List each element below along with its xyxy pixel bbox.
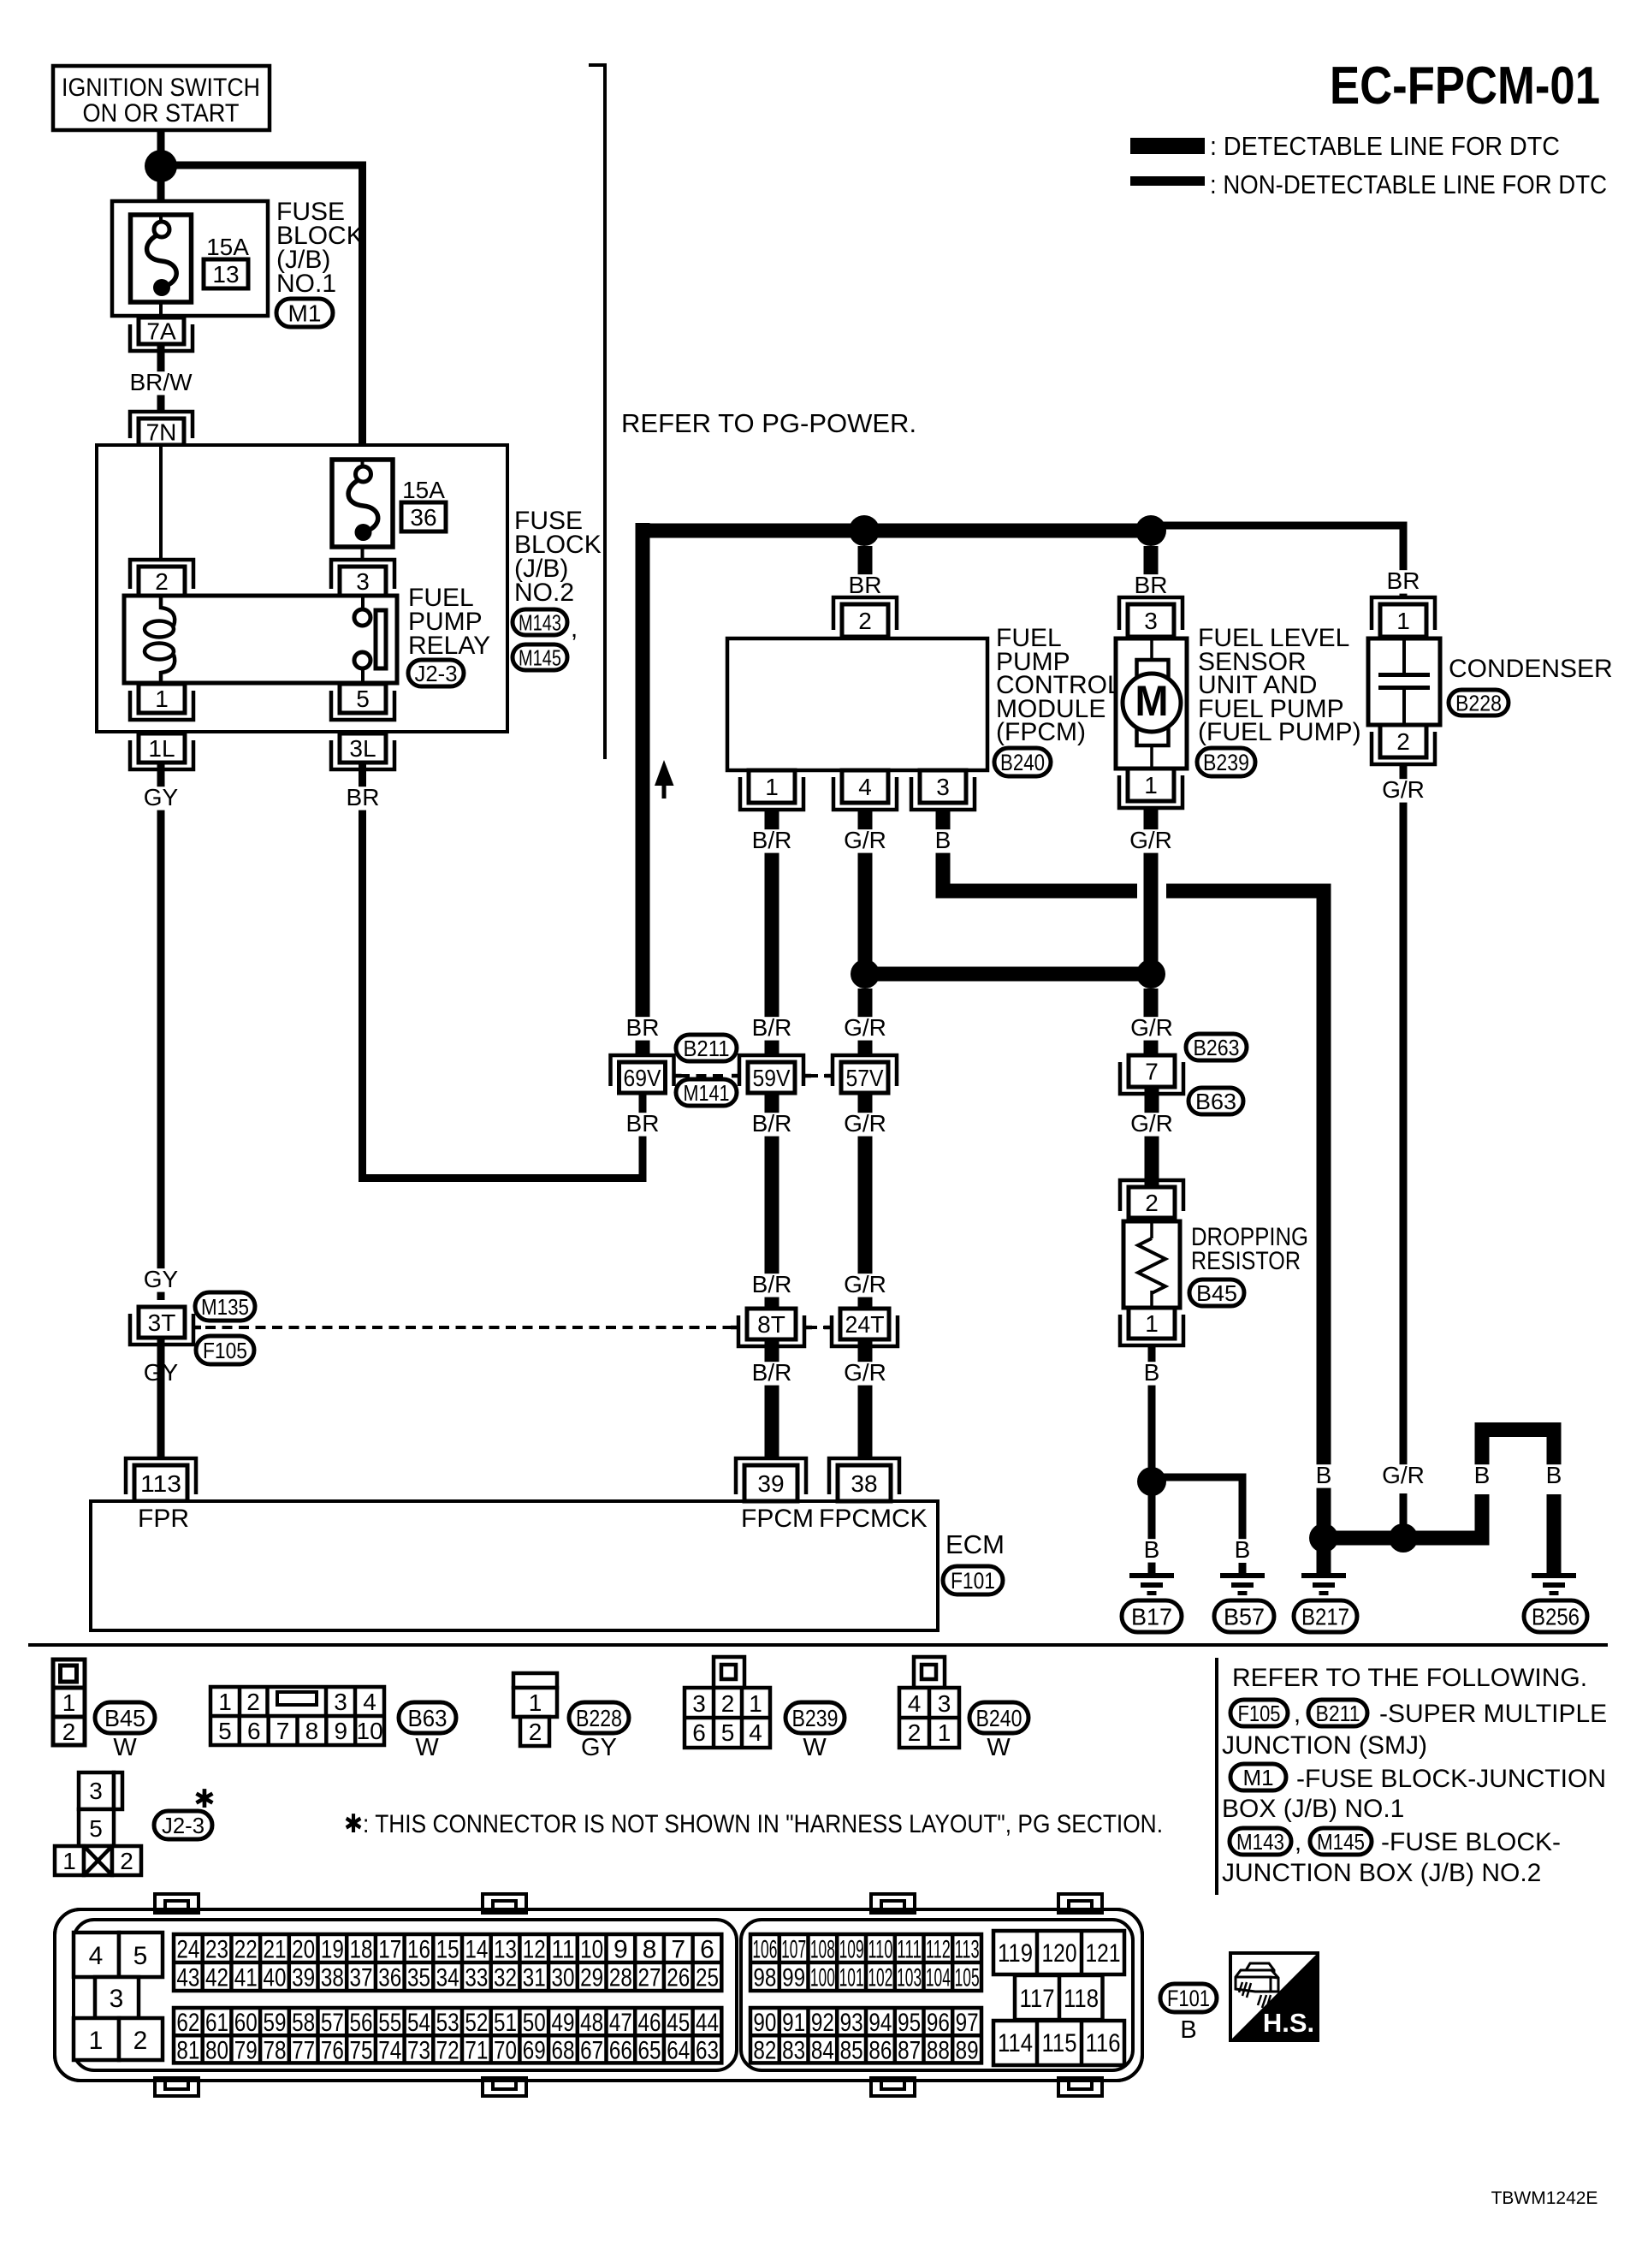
svg-text:55: 55 — [378, 2009, 401, 2037]
fuse block J/B no.1 box — [112, 201, 268, 316]
svg-text:22: 22 — [234, 1936, 258, 1964]
connector B240 oval — [994, 748, 1051, 776]
svg-text:66: 66 — [609, 2036, 632, 2064]
label B on U right leg — [1541, 1464, 1566, 1487]
svg-text:G/R: G/R — [1382, 776, 1425, 803]
svg-text:96: 96 — [927, 2009, 950, 2037]
svg-text:-FUSE BLOCK-: -FUSE BLOCK- — [1381, 1828, 1561, 1856]
relay connector 2 — [130, 560, 193, 589]
svg-text:4: 4 — [858, 774, 872, 800]
svg-text:REFER TO THE FOLLOWING.: REFER TO THE FOLLOWING. — [1232, 1664, 1587, 1692]
svg-text:REFER TO PG-POWER.: REFER TO PG-POWER. — [621, 408, 916, 438]
svg-text:9: 9 — [613, 1936, 628, 1964]
svg-text:61: 61 — [205, 2009, 228, 2037]
connector M141 oval — [676, 1079, 737, 1106]
connector view B228 — [513, 1673, 557, 1688]
svg-text:5: 5 — [356, 686, 370, 712]
label G/R below FPCM 4 — [838, 829, 892, 852]
svg-text:3: 3 — [89, 1778, 103, 1804]
wire fuse 13 to 7A — [159, 302, 163, 318]
svg-text:J2-3: J2-3 — [162, 1813, 204, 1838]
svg-text:B211: B211 — [684, 1036, 730, 1061]
svg-text:114: 114 — [998, 2029, 1033, 2057]
label B below resistor — [1139, 1362, 1164, 1385]
connector view B240 — [914, 1657, 945, 1688]
svg-text:FPCM: FPCM — [741, 1505, 814, 1533]
svg-text:2: 2 — [133, 2027, 148, 2055]
label BR/W — [126, 371, 195, 395]
wire B resistor to node — [1148, 1345, 1156, 1481]
connector B211 oval — [676, 1035, 737, 1061]
svg-text:B: B — [935, 827, 951, 853]
label BR above condenser — [1384, 570, 1424, 593]
svg-text:49: 49 — [551, 2009, 574, 2037]
svg-text:38: 38 — [851, 1470, 877, 1497]
fuel pump motor M — [1150, 638, 1153, 663]
svg-text:M143: M143 — [519, 609, 561, 635]
connector B239 oval — [1197, 748, 1255, 776]
svg-text:M143: M143 — [1236, 1829, 1284, 1855]
dashed line 69V to 59V — [679, 1074, 727, 1078]
svg-text:TBWM1242E: TBWM1242E — [1491, 2188, 1598, 2208]
svg-text:-FUSE BLOCK-JUNCTION: -FUSE BLOCK-JUNCTION — [1296, 1765, 1606, 1793]
svg-text:59V: 59V — [753, 1065, 791, 1091]
relay connector 5 — [331, 691, 394, 720]
svg-text:B256: B256 — [1532, 1604, 1580, 1630]
node B217 — [1309, 1523, 1338, 1553]
svg-text:2: 2 — [246, 1689, 260, 1715]
svg-text:B: B — [1144, 1536, 1160, 1563]
svg-text:BR/W: BR/W — [129, 369, 193, 395]
connector 38 (ECM) — [829, 1458, 899, 1494]
wire BR dot to pump pin 3 — [1144, 546, 1159, 597]
svg-text:B240: B240 — [976, 1705, 1022, 1731]
svg-text:B17: B17 — [1131, 1604, 1172, 1630]
label BR below 3L — [343, 787, 383, 810]
svg-text:BR: BR — [626, 1014, 660, 1041]
ECM pin grid upper left (24-6 / 43-25) — [174, 1934, 721, 1991]
label B above B17 ground — [1139, 1539, 1164, 1562]
ECM pins 119 120 121 — [993, 1931, 1124, 1974]
svg-text:33: 33 — [465, 1964, 488, 1992]
svg-text:M135: M135 — [201, 1294, 249, 1320]
label GY below 1L — [141, 787, 181, 810]
label BR above FPCM 2 — [845, 574, 886, 597]
connector B228 oval — [1449, 690, 1509, 715]
ECM pins 114 115 116 — [993, 2021, 1124, 2065]
svg-text:2: 2 — [529, 1719, 542, 1745]
arrow up (power feed) — [655, 760, 674, 786]
svg-text:,: , — [571, 614, 578, 643]
svg-text:W: W — [113, 1734, 137, 1761]
svg-text:F101: F101 — [1167, 1986, 1210, 2011]
connector 7N — [130, 412, 193, 438]
svg-text:3: 3 — [692, 1690, 706, 1717]
svg-text:29: 29 — [580, 1964, 603, 1992]
svg-text:NO.1: NO.1 — [276, 270, 336, 298]
svg-text:63: 63 — [696, 2036, 719, 2064]
wire B217 node to ground — [1317, 1545, 1331, 1573]
connector B63 oval — [1188, 1088, 1243, 1114]
svg-text:2: 2 — [1396, 728, 1410, 755]
wire G/R condenser down — [1400, 764, 1408, 1465]
svg-text:8T: 8T — [757, 1311, 785, 1338]
svg-text:B63: B63 — [1195, 1089, 1236, 1114]
FPCM connector 3 — [911, 777, 975, 810]
svg-text:118: 118 — [1064, 1985, 1099, 2013]
label BR above pump 3 — [1131, 574, 1171, 597]
svg-text:1: 1 — [1396, 608, 1410, 634]
svg-text:B: B — [1316, 1462, 1332, 1488]
svg-text:92: 92 — [811, 2009, 834, 2037]
ignition switch box — [53, 66, 270, 130]
svg-text:9: 9 — [334, 1718, 347, 1744]
svg-text:86: 86 — [868, 2036, 892, 2064]
svg-text:113: 113 — [140, 1470, 181, 1497]
label G/R below pump 1 (over wire) — [1123, 829, 1178, 852]
label B above B57 ground — [1230, 1539, 1254, 1562]
svg-text:38: 38 — [321, 1964, 344, 1992]
svg-text:3: 3 — [110, 1985, 124, 2013]
svg-text:90: 90 — [753, 2009, 776, 2037]
svg-text:2: 2 — [62, 1719, 76, 1745]
label G/R above 57V — [838, 1017, 892, 1040]
svg-text:94: 94 — [868, 2009, 892, 2037]
svg-text:75: 75 — [350, 2036, 373, 2064]
svg-text:67: 67 — [580, 2036, 603, 2064]
svg-text:G/R: G/R — [844, 827, 886, 853]
label B above B217 node — [1311, 1464, 1336, 1487]
svg-text:3: 3 — [936, 774, 950, 800]
wire node to B57 elbow — [1164, 1474, 1247, 1481]
svg-text:97: 97 — [956, 2009, 979, 2037]
svg-text:BR: BR — [626, 1110, 660, 1137]
dashed line 59V to 57V — [809, 1074, 828, 1078]
svg-text:B263: B263 — [1194, 1035, 1240, 1060]
svg-text:B45: B45 — [104, 1705, 145, 1731]
svg-text:FPR: FPR — [138, 1505, 189, 1533]
svg-text:44: 44 — [696, 2009, 719, 2037]
svg-text:2: 2 — [858, 608, 872, 634]
wire G/R node to connector 7 — [1144, 989, 1159, 1055]
label B/R below FPCM 1 — [744, 829, 799, 852]
svg-text:CONDENSER: CONDENSER — [1449, 655, 1613, 683]
oval B63 (view) — [399, 1702, 456, 1733]
dashed line 3T to 8T — [205, 1326, 740, 1329]
fuse 15A no.36 — [332, 460, 393, 547]
svg-text:2: 2 — [155, 568, 169, 595]
wire BR to condenser (non-detectable) — [1159, 522, 1408, 530]
svg-text:100: 100 — [810, 1964, 835, 1992]
wire BR dot to FPCM pin 2 — [858, 546, 873, 597]
svg-text:5: 5 — [89, 1815, 103, 1842]
svg-text:(FPCM): (FPCM) — [996, 718, 1086, 746]
svg-text:106: 106 — [752, 1936, 777, 1964]
fuel pump connector 1 — [1119, 775, 1183, 808]
svg-text:21: 21 — [263, 1936, 286, 1964]
svg-text:15A: 15A — [206, 234, 249, 260]
svg-text:G/R: G/R — [844, 1014, 886, 1041]
ground B217 — [1301, 1573, 1346, 1578]
condenser connector 1 — [1372, 597, 1435, 630]
svg-text:98: 98 — [753, 1964, 776, 1992]
ground oval B57 — [1214, 1600, 1274, 1632]
svg-text:47: 47 — [609, 2009, 632, 2037]
svg-text:109: 109 — [839, 1936, 864, 1964]
svg-text:15: 15 — [436, 1936, 459, 1964]
wire 3T to ECM 113 — [157, 1338, 165, 1459]
connector M143 oval — [513, 609, 567, 635]
svg-text:70: 70 — [494, 2036, 517, 2064]
svg-text:30: 30 — [551, 1964, 574, 1992]
svg-text:111: 111 — [897, 1936, 922, 1964]
svg-text:41: 41 — [234, 1964, 258, 1992]
connector 39 (ECM) — [736, 1458, 806, 1494]
svg-text:W: W — [415, 1734, 439, 1761]
dropping resistor connector 2 — [1120, 1180, 1183, 1211]
wire G/R connector 7 to resistor — [1145, 1087, 1159, 1187]
svg-text:G/R: G/R — [844, 1110, 886, 1137]
svg-text:J2-3: J2-3 — [415, 661, 458, 686]
oval B239 (view) — [785, 1702, 845, 1733]
ground B256 — [1532, 1573, 1576, 1578]
svg-text:57V: 57V — [846, 1065, 884, 1091]
svg-text:10: 10 — [580, 1936, 603, 1964]
svg-text:31: 31 — [523, 1964, 546, 1992]
connector 57V — [833, 1055, 897, 1086]
svg-text:B/R: B/R — [752, 827, 792, 853]
ECM connector housing inner left — [74, 1920, 737, 2070]
node BR at fuel pump branch — [1135, 515, 1166, 546]
node BR at FPCM branch — [849, 515, 880, 546]
svg-text:3T: 3T — [148, 1309, 176, 1336]
label B/R below 8T — [744, 1362, 799, 1385]
node G/R right — [1136, 959, 1165, 989]
svg-text:62: 62 — [176, 2009, 199, 2037]
dropping resistor connector 1 — [1120, 1315, 1183, 1345]
svg-text:72: 72 — [436, 2036, 459, 2064]
svg-text:✱: ✱ — [193, 1785, 215, 1814]
svg-text:36: 36 — [410, 504, 436, 531]
ground B17 — [1129, 1573, 1174, 1578]
oval M1 (refer) — [1230, 1764, 1286, 1790]
svg-text:JUNCTION BOX (J/B) NO.2: JUNCTION BOX (J/B) NO.2 — [1222, 1859, 1541, 1887]
svg-text:BR: BR — [1135, 572, 1168, 598]
svg-text:(FUEL PUMP): (FUEL PUMP) — [1198, 718, 1361, 746]
connector J2-3 oval — [408, 660, 464, 686]
svg-text:GY: GY — [581, 1734, 617, 1761]
box fuse number 13 — [204, 259, 248, 288]
svg-text:1: 1 — [1145, 1310, 1159, 1337]
svg-text:89: 89 — [956, 2036, 979, 2064]
label G/R above node — [1376, 1464, 1431, 1487]
fuel level sensor unit and fuel pump box — [1116, 638, 1187, 769]
relay connector 1 — [130, 691, 193, 720]
legend non-detectable line sample — [1130, 176, 1205, 186]
svg-text:-SUPER MULTIPLE: -SUPER MULTIPLE — [1379, 1700, 1607, 1728]
svg-text:NO.2: NO.2 — [514, 579, 574, 607]
svg-text:3: 3 — [938, 1690, 951, 1717]
svg-text:GY: GY — [144, 1266, 179, 1292]
svg-text:IGNITION SWITCH: IGNITION SWITCH — [62, 74, 260, 102]
svg-text:B/R: B/R — [752, 1014, 792, 1041]
ground oval B217 — [1294, 1600, 1357, 1632]
condenser box — [1368, 638, 1440, 725]
connector 59V — [739, 1055, 803, 1086]
ground oval B17 — [1122, 1600, 1182, 1632]
svg-text:4: 4 — [363, 1689, 376, 1715]
wire 7A to 7N — [157, 344, 165, 413]
wire G/R pump to junction node — [1144, 806, 1159, 974]
svg-text:5: 5 — [133, 1942, 148, 1970]
svg-text:GY: GY — [144, 784, 179, 810]
ECM box — [91, 1501, 938, 1630]
connector F101 oval — [943, 1566, 1003, 1594]
svg-text:5: 5 — [218, 1718, 232, 1744]
svg-text:4: 4 — [908, 1690, 922, 1717]
svg-text:5: 5 — [721, 1719, 735, 1746]
svg-text:103: 103 — [897, 1964, 922, 1992]
svg-text:40: 40 — [263, 1964, 286, 1992]
relay coil — [161, 596, 175, 626]
connector 3L — [331, 740, 394, 769]
wire node right to fuse 36 — [176, 162, 366, 169]
svg-text:50: 50 — [523, 2009, 546, 2037]
ECM pin grid lower right (90-97 / 82-89) — [750, 2008, 981, 2063]
node G/R left — [851, 959, 880, 989]
svg-text:85: 85 — [840, 2036, 863, 2064]
wire U-bend (B) — [1475, 1494, 1490, 1546]
svg-text:60: 60 — [234, 2009, 258, 2037]
svg-text:RELAY: RELAY — [408, 632, 490, 660]
svg-text:1: 1 — [1144, 772, 1158, 799]
svg-text:112: 112 — [926, 1936, 951, 1964]
svg-text:1: 1 — [765, 774, 779, 800]
svg-text:8: 8 — [305, 1718, 319, 1744]
connector 24T — [832, 1315, 898, 1346]
condenser capacitor symbol — [1402, 638, 1406, 673]
svg-text:1: 1 — [938, 1719, 951, 1746]
svg-text:69: 69 — [523, 2036, 546, 2064]
svg-text:19: 19 — [321, 1936, 344, 1964]
svg-text:119: 119 — [998, 1939, 1033, 1968]
svg-text:1: 1 — [529, 1689, 542, 1716]
oval F101 (ECM view) — [1160, 1984, 1217, 2012]
svg-text:3: 3 — [1144, 608, 1158, 634]
connector view J2-3 — [79, 1772, 114, 1809]
bracket line REFER TO PG-POWER — [589, 63, 607, 67]
svg-text:W: W — [987, 1734, 1011, 1761]
svg-text:20: 20 — [292, 1936, 315, 1964]
ECM key pins 4 5 3 1 2 — [74, 1933, 119, 1977]
label G/R below 57V (redraw) — [838, 1113, 892, 1136]
svg-text:1: 1 — [62, 1848, 76, 1874]
svg-text:1: 1 — [218, 1689, 232, 1715]
svg-text:80: 80 — [205, 2036, 228, 2064]
ECM pin grid lower left (62-44 / 81-63) — [174, 2008, 721, 2063]
svg-text:42: 42 — [205, 1964, 228, 1992]
connector 8T — [738, 1315, 804, 1346]
svg-text:B228: B228 — [576, 1705, 622, 1731]
svg-text:102: 102 — [868, 1964, 892, 1992]
connector view B45 — [53, 1659, 85, 1745]
oval B228 (view) — [569, 1702, 629, 1733]
svg-text:87: 87 — [898, 2036, 921, 2064]
svg-text:G/R: G/R — [844, 1271, 886, 1297]
svg-text:G/R: G/R — [1382, 1462, 1425, 1488]
svg-text:73: 73 — [407, 2036, 430, 2064]
svg-text:ECM: ECM — [945, 1529, 1005, 1559]
svg-text:108: 108 — [810, 1936, 835, 1964]
wire 7N to relay pin 2 — [159, 445, 163, 561]
label B below FPCM 3 — [930, 829, 955, 852]
wire fuse 36 to relay pin 3 — [361, 547, 365, 561]
svg-text:7: 7 — [1145, 1059, 1159, 1085]
svg-text:15A: 15A — [402, 477, 445, 503]
svg-text:58: 58 — [292, 2009, 315, 2037]
svg-text:34: 34 — [436, 1964, 459, 1992]
node ignition splice — [145, 150, 177, 182]
svg-text:76: 76 — [321, 2036, 344, 2064]
wire ignition to node — [157, 130, 165, 151]
separator line of refer-to box — [1215, 1658, 1218, 1895]
svg-text:1: 1 — [89, 2027, 104, 2055]
connector view B63 — [210, 1687, 384, 1745]
svg-text:G/R: G/R — [1130, 1014, 1173, 1041]
ECM connector housing outer — [55, 1909, 1142, 2081]
oval F105 (refer) — [1230, 1700, 1288, 1726]
connector view B239 — [714, 1657, 744, 1688]
svg-text:35: 35 — [407, 1964, 430, 1992]
svg-text:2: 2 — [721, 1690, 735, 1717]
divider line — [28, 1643, 1608, 1647]
svg-text:52: 52 — [465, 2009, 488, 2037]
svg-text:2: 2 — [1145, 1190, 1159, 1216]
svg-text:BR: BR — [1387, 567, 1420, 594]
connector M145 oval — [513, 644, 567, 670]
svg-text:71: 71 — [465, 2036, 488, 2064]
svg-text:46: 46 — [638, 2009, 661, 2037]
svg-text:32: 32 — [494, 1964, 517, 1992]
box fuse number 36 — [401, 502, 446, 531]
wire 1L to 3T (GY) — [157, 763, 165, 1300]
svg-text:104: 104 — [926, 1964, 951, 1992]
wire 3L BR elbow to 69V — [359, 763, 366, 1182]
legend detectable line sample — [1130, 138, 1205, 154]
svg-text:G/R: G/R — [844, 1359, 886, 1386]
svg-text:F105: F105 — [1238, 1701, 1281, 1726]
wire to B17 ground — [1148, 1493, 1156, 1573]
svg-text:91: 91 — [782, 2009, 805, 2037]
svg-text:39: 39 — [757, 1470, 784, 1497]
svg-text:B: B — [1546, 1462, 1562, 1488]
svg-text:1: 1 — [62, 1689, 76, 1716]
svg-text:W: W — [803, 1734, 827, 1761]
label GY above 3T — [141, 1268, 181, 1291]
svg-text:113: 113 — [955, 1936, 980, 1964]
svg-text:: NON-DETECTABLE LINE FOR DTC: : NON-DETECTABLE LINE FOR DTC — [1210, 169, 1607, 199]
wire node to U-bend — [1415, 1531, 1490, 1546]
svg-text:57: 57 — [321, 2009, 344, 2037]
svg-text:7: 7 — [276, 1718, 290, 1744]
ground oval B256 — [1524, 1600, 1587, 1632]
connector 3T — [130, 1314, 193, 1345]
node G/R-B junction — [1389, 1523, 1418, 1553]
svg-text:M1: M1 — [1242, 1765, 1273, 1790]
svg-text:25: 25 — [696, 1964, 719, 1992]
fuel pump control module FPCM box — [727, 638, 987, 770]
svg-text:16: 16 — [407, 1936, 430, 1964]
